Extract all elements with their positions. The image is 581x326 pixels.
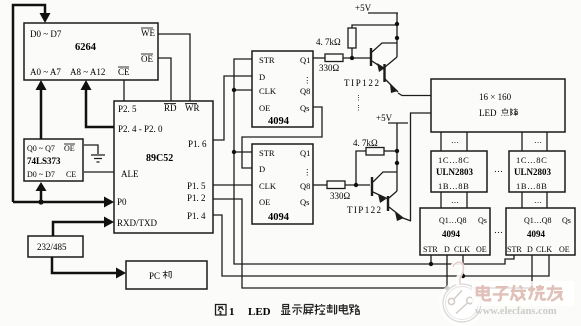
svg-text:STR: STR [259, 55, 275, 65]
svg-text:P1. 2: P1. 2 [187, 193, 206, 203]
svg-text:ULN2803: ULN2803 [436, 167, 474, 177]
svg-text:4094: 4094 [527, 229, 546, 239]
svg-text:CLK: CLK [536, 245, 552, 254]
svg-text:P0: P0 [117, 197, 127, 207]
svg-text:1C…8C: 1C…8C [516, 155, 547, 165]
svg-text:4094: 4094 [268, 212, 290, 223]
svg-text:⋮: ⋮ [303, 75, 312, 85]
svg-text:P1. 4: P1. 4 [187, 211, 206, 221]
svg-text:STR: STR [507, 245, 522, 254]
svg-text:Q8: Q8 [300, 181, 310, 191]
svg-text:16 × 160: 16 × 160 [479, 92, 512, 102]
svg-text:89C52: 89C52 [146, 153, 173, 164]
svg-text:www.elecfans.com: www.elecfans.com [475, 306, 557, 317]
svg-text:WE: WE [141, 28, 155, 38]
svg-text:RD: RD [164, 103, 177, 113]
svg-text:…: … [534, 196, 542, 205]
svg-text:Qs: Qs [562, 216, 571, 225]
svg-text:Qs: Qs [300, 197, 309, 207]
svg-text:Q0 ~ Q7: Q0 ~ Q7 [27, 144, 55, 153]
svg-text:+5V: +5V [376, 113, 393, 123]
svg-text:TIP122: TIP122 [347, 205, 382, 215]
svg-text:D: D [259, 72, 265, 82]
svg-text:⋮: ⋮ [355, 94, 362, 102]
svg-text:…: … [494, 225, 503, 235]
svg-text:STR: STR [423, 245, 438, 254]
svg-text:4. 7kΩ: 4. 7kΩ [353, 138, 378, 148]
svg-text:…: … [534, 136, 542, 145]
svg-text:4094: 4094 [442, 229, 461, 239]
svg-text:P2. 4 - P2. 0: P2. 4 - P2. 0 [118, 124, 163, 134]
svg-text:A0 ~ A7: A0 ~ A7 [30, 67, 61, 77]
svg-text:ALE: ALE [121, 169, 139, 179]
svg-text:WR: WR [185, 103, 200, 113]
svg-text:D0 ~ D7: D0 ~ D7 [27, 170, 55, 179]
svg-text:⋮: ⋮ [355, 104, 362, 112]
svg-text:Q8: Q8 [300, 86, 310, 96]
svg-text:Qs: Qs [300, 103, 309, 113]
svg-text:LED: LED [479, 108, 497, 118]
svg-text:ULN2803: ULN2803 [514, 167, 552, 177]
svg-text:…: … [451, 196, 459, 205]
svg-text:OE: OE [259, 103, 270, 113]
svg-text:…: … [494, 164, 503, 174]
svg-text:+5V: +5V [355, 3, 372, 13]
svg-text:232/485: 232/485 [37, 242, 67, 252]
svg-text:CE: CE [118, 67, 130, 77]
svg-text:P2. 5: P2. 5 [118, 104, 137, 114]
svg-text:D: D [444, 245, 450, 254]
svg-text:CLK: CLK [259, 181, 277, 191]
svg-text:PC: PC [149, 271, 160, 281]
svg-text:A8 ~ A12: A8 ~ A12 [70, 67, 105, 77]
svg-text:OE: OE [259, 197, 270, 207]
svg-text:RXD/TXD: RXD/TXD [117, 218, 157, 228]
svg-text:6264: 6264 [75, 42, 97, 53]
svg-text:OE: OE [559, 245, 570, 254]
svg-text:OE: OE [476, 245, 487, 254]
svg-text:74LS373: 74LS373 [27, 156, 61, 166]
svg-text:Q1…Q8: Q1…Q8 [524, 216, 552, 225]
svg-text:OE: OE [64, 144, 75, 153]
svg-text:⋮: ⋮ [303, 167, 312, 177]
svg-text:4. 7kΩ: 4. 7kΩ [316, 37, 341, 47]
svg-text:1C…8C: 1C…8C [438, 155, 469, 165]
svg-text:4094: 4094 [268, 116, 290, 127]
svg-text:1B…8B: 1B…8B [516, 181, 547, 191]
svg-text:D: D [259, 164, 265, 174]
svg-text:1: 1 [229, 306, 235, 318]
svg-text:OE: OE [141, 54, 153, 64]
svg-text:LED: LED [248, 306, 271, 318]
svg-text:330Ω: 330Ω [319, 63, 340, 73]
svg-text:D0 ~ D7: D0 ~ D7 [30, 29, 62, 39]
svg-text:Q1: Q1 [300, 55, 310, 65]
svg-text:Q1: Q1 [300, 148, 310, 158]
svg-text:CE: CE [66, 170, 76, 179]
svg-text:D: D [527, 245, 533, 254]
svg-text:…: … [451, 136, 459, 145]
svg-text:Q1…Q8: Q1…Q8 [439, 216, 467, 225]
svg-text:CLK: CLK [454, 245, 470, 254]
svg-text:P1. 5: P1. 5 [187, 181, 206, 191]
svg-text:330Ω: 330Ω [330, 191, 351, 201]
svg-text:P1. 6: P1. 6 [188, 139, 207, 149]
svg-text:CLK: CLK [259, 86, 277, 96]
svg-text:STR: STR [259, 148, 275, 158]
svg-text:Qs: Qs [478, 216, 487, 225]
svg-text:TIP122: TIP122 [344, 78, 381, 88]
svg-text:1B…8B: 1B…8B [438, 181, 469, 191]
